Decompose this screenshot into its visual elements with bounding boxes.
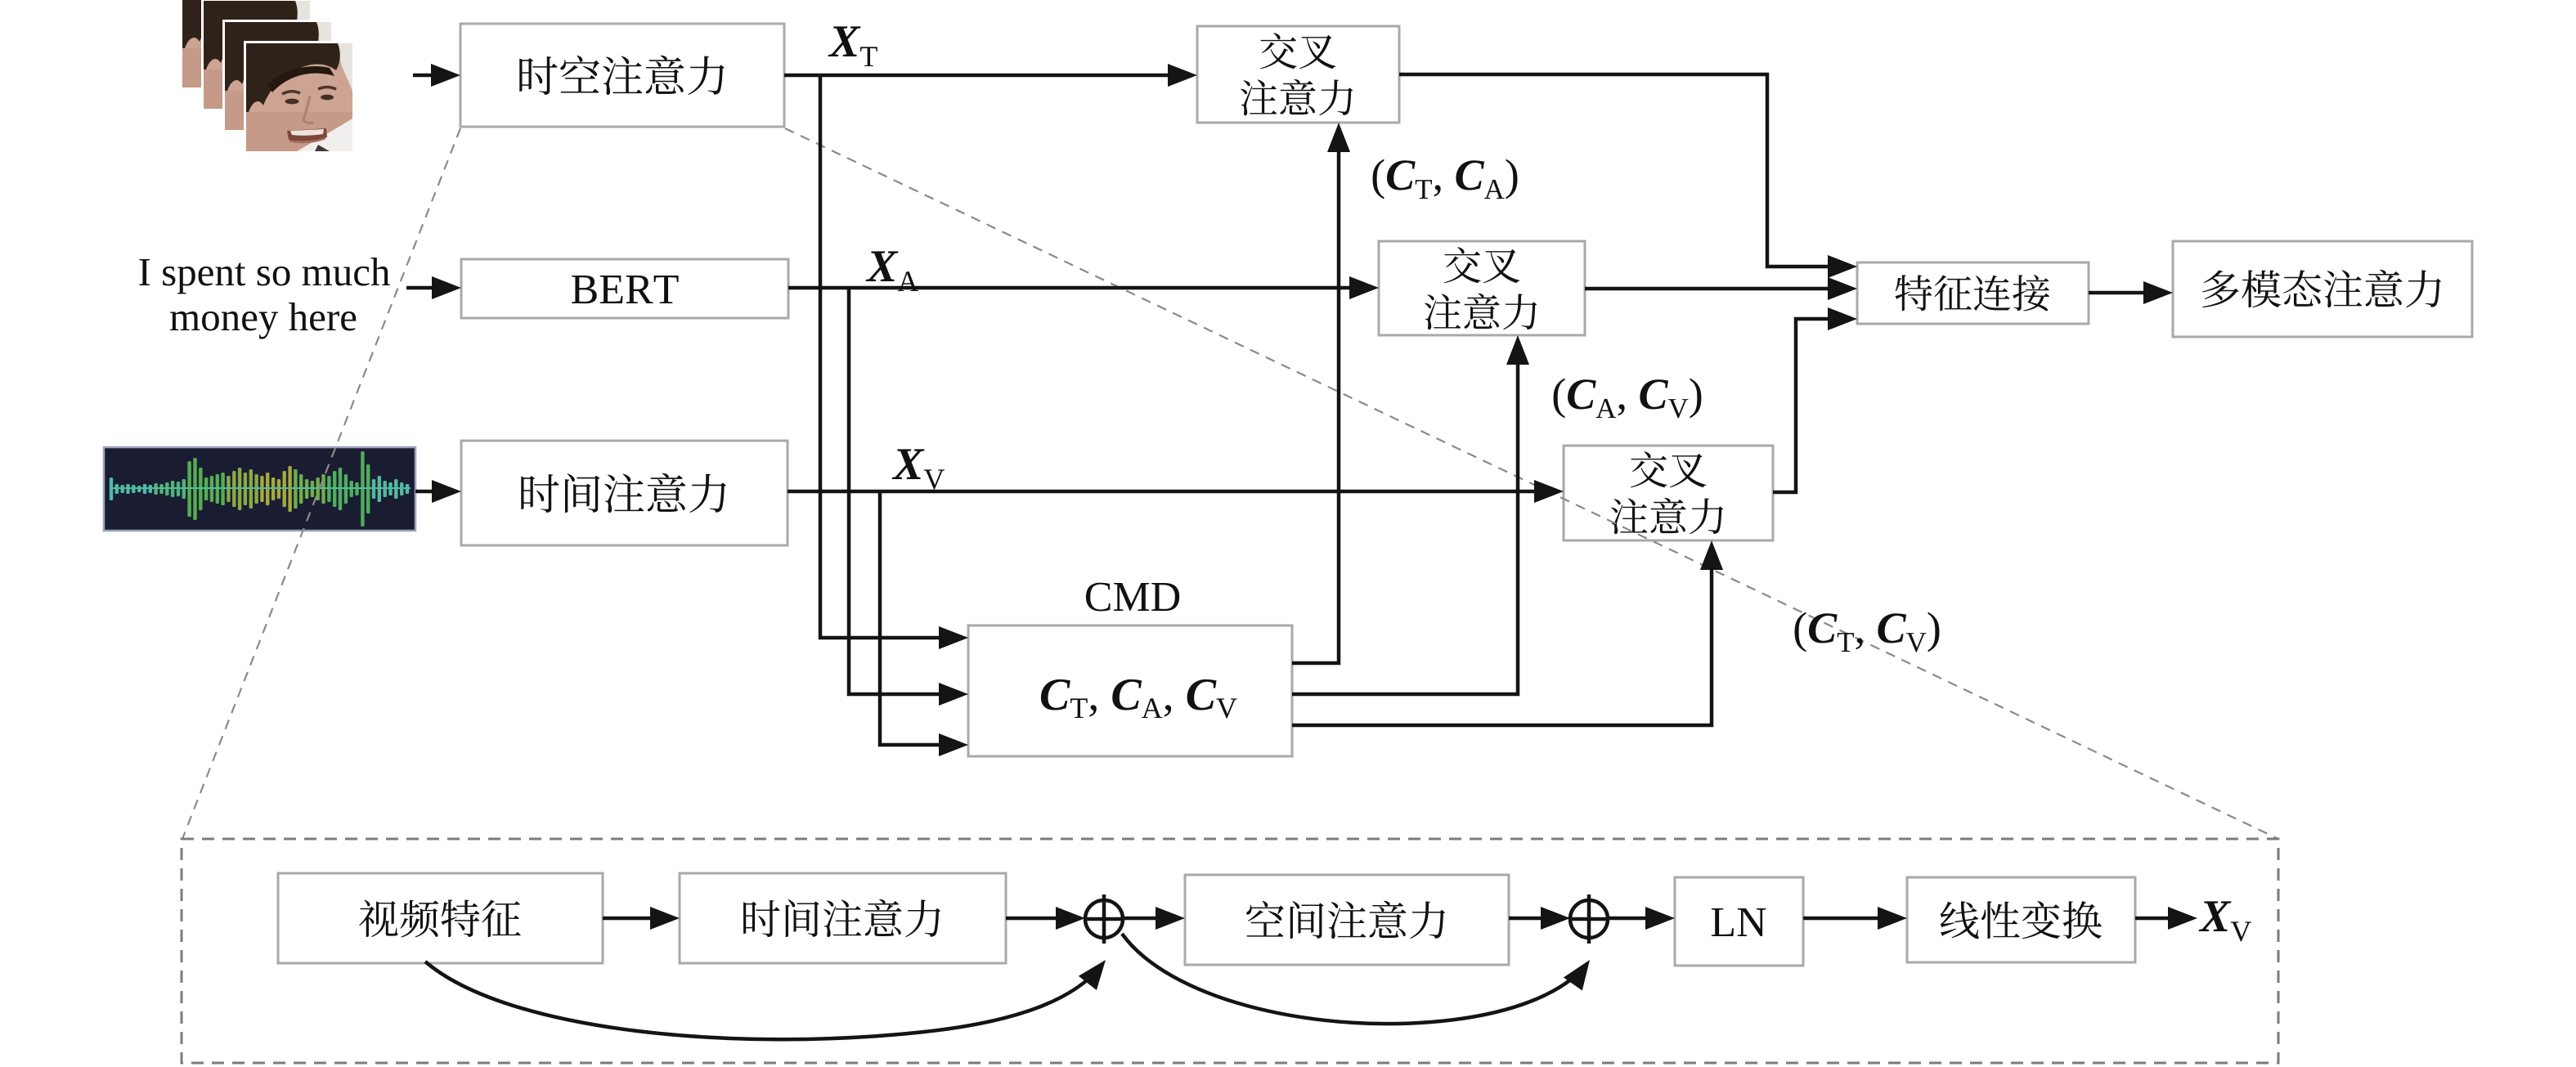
box: 时空注意力 (spatio-temporal attention) xyxy=(460,24,784,127)
box: CMD (C_T, C_A, C_V) xyxy=(968,625,1292,756)
wire: 交叉注意力#3 -> 特征连接 xyxy=(1773,319,1834,492)
label (C_A, C_V) xyxy=(1554,379,1702,419)
dashed expansion line right xyxy=(785,128,2278,839)
adder circle 2 xyxy=(1570,900,1608,938)
wire: 交叉注意力#2 -> 特征连接 xyxy=(1585,287,1834,291)
wire: X_T drop to CMD input 1 xyxy=(820,75,945,638)
label X_V output xyxy=(2199,901,2251,941)
arrow: waveform -> 时间注意力 xyxy=(415,490,438,494)
box: 时间注意力 (temporal attention) xyxy=(461,441,788,545)
wire: CMD -> 交叉注意力#1 (C_T,C_A) xyxy=(1292,146,1339,663)
wire: 交叉注意力#1 -> 特征连接 xyxy=(1399,74,1834,267)
arrow: LN -> 线性变换 xyxy=(1803,917,1884,921)
skip curve: 视频特征 -> adder1 xyxy=(425,962,1101,1039)
audio waveform image xyxy=(104,447,415,531)
wire: CMD -> 交叉注意力#3 (C_T,C_V) xyxy=(1292,563,1712,725)
box: 特征连接 (feature concatenation) xyxy=(1857,262,2089,324)
label (C_T, C_V) xyxy=(1795,612,1940,652)
wire: CMD -> 交叉注意力#2 (C_A,C_V) xyxy=(1292,358,1518,694)
arrow: 特征连接 -> 多模态注意力 xyxy=(2089,291,2150,295)
wire: X_A drop to CMD input 2 xyxy=(849,288,945,694)
box: 线性变换 (linear transform) xyxy=(1907,877,2135,962)
box: BERT xyxy=(461,259,788,318)
arrow: 线性变换 -> X_V output xyxy=(2135,917,2174,921)
wire X_V: 时间注意力 -> 交叉注意力#3 xyxy=(788,490,1541,494)
box: 交叉注意力 #3 (cross attention T-V) xyxy=(1564,446,1773,540)
caption: I spent so much money here xyxy=(139,258,390,294)
arrow: 空间注意力 -> adder2 xyxy=(1509,917,1547,921)
arrow: 时间注意力 -> adder1 xyxy=(1006,917,1062,921)
skip curve: adder1 -> adder2 xyxy=(1122,934,1585,1024)
arrow: adder2 -> LN xyxy=(1608,917,1652,921)
arrow: text -> BERT xyxy=(406,286,438,290)
box: 时间注意力 (temporal attention, expanded) xyxy=(680,873,1006,963)
arrow: adder1 -> 空间注意力 xyxy=(1123,917,1162,921)
label X_T xyxy=(828,26,877,66)
label X_A xyxy=(866,251,919,291)
arrow: frames -> 时空注意力 xyxy=(413,74,438,78)
arrow: 视频特征 -> 时间注意力 xyxy=(603,917,657,921)
dashed expansion box xyxy=(182,839,2278,1063)
box: 视频特征 (video features) xyxy=(278,873,603,963)
box: 交叉注意力 #2 (cross attention A-V) xyxy=(1379,241,1585,335)
wire: X_V drop to CMD input 3 xyxy=(880,491,945,745)
box: 多模态注意力 (multimodal attention) xyxy=(2173,241,2472,337)
dashed expansion line left xyxy=(182,128,460,839)
box: LN xyxy=(1675,877,1803,966)
box: 交叉注意力 #1 (cross attention T-A) xyxy=(1197,26,1399,123)
label X_V xyxy=(892,449,945,489)
label (C_T, C_A) xyxy=(1373,159,1518,200)
wire X_A: BERT -> 交叉注意力#2 xyxy=(788,286,1356,290)
adder circle 1 xyxy=(1085,900,1123,938)
wire X_T: 时空注意力 -> 交叉注意力#1 xyxy=(784,74,1174,78)
box: 空间注意力 (spatial attention) xyxy=(1185,875,1509,965)
